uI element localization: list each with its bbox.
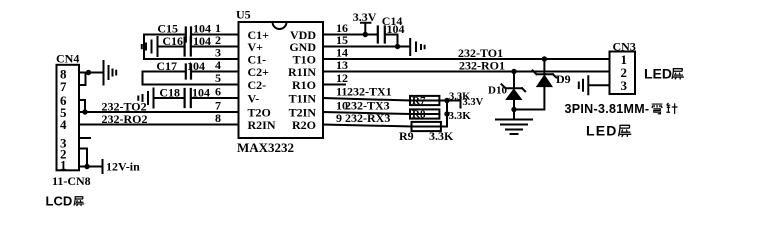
svg-text:C17: C17 (156, 59, 177, 73)
op-amp U5 MAX3232 body (239, 22, 324, 138)
wire net 232-TO2 (79, 111, 239, 113)
svg-text:232-RO2: 232-RO2 (102, 112, 148, 126)
svg-text:U5: U5 (236, 8, 251, 22)
connector CN4 (57, 65, 80, 171)
diode D9 (zener) (543, 59, 545, 74)
resistor R9 (412, 122, 441, 131)
ground (diodes) (496, 120, 532, 135)
svg-text:12V-in: 12V-in (106, 160, 140, 174)
svg-text:R9: R9 (399, 129, 414, 143)
ground CN3 (left-pointing) (579, 76, 589, 94)
svg-text:MAX3232: MAX3232 (237, 140, 294, 155)
connector CN3 (610, 52, 636, 95)
svg-text:R8: R8 (412, 109, 426, 121)
wire C1- row (144, 58, 239, 60)
glyph ping (screen) for LED right (672, 69, 684, 80)
svg-text:CN4: CN4 (56, 52, 79, 66)
wire C18 left to ground (155, 97, 184, 99)
node pin6/pin5 junction (82, 109, 87, 114)
svg-text:6: 6 (215, 85, 221, 99)
svg-text:LED: LED (586, 123, 618, 139)
wire pin2 hook (79, 149, 87, 167)
capacitor C17 (186, 65, 191, 79)
wire net 232-RO2 (79, 124, 239, 126)
ground GND (right-pointing) (410, 39, 424, 55)
svg-text:1: 1 (60, 158, 67, 173)
ground CN4 (right-pointing) (104, 61, 117, 85)
wire R7 to rail (439, 100, 460, 102)
node R7 rail junction (444, 98, 449, 103)
svg-text:R7: R7 (412, 95, 426, 107)
svg-text:3: 3 (621, 78, 628, 93)
svg-text:C2+: C2+ (248, 65, 270, 79)
svg-text:7: 7 (60, 79, 67, 94)
wire VDD row to 3.3V and C14 (323, 34, 377, 36)
wire C16 left to ground (159, 46, 184, 48)
wire C18 right to V- (192, 97, 239, 99)
svg-text:104: 104 (387, 22, 405, 36)
wire pin3 stub (79, 137, 90, 139)
svg-text:R1O: R1O (292, 78, 316, 92)
svg-text:R1IN: R1IN (288, 65, 316, 79)
node D9 junction (542, 56, 547, 61)
ground C18 (left-pointing) (138, 89, 153, 108)
resistor R7 (410, 96, 439, 105)
capacitor C15 (186, 28, 191, 42)
wire C2+ row (192, 71, 239, 73)
glyph ping (screen) for LCD (74, 197, 84, 206)
svg-text:104: 104 (187, 59, 205, 73)
wire GND row (323, 46, 410, 48)
svg-text:232-RO1: 232-RO1 (459, 58, 505, 72)
svg-text:C2-: C2- (248, 78, 267, 92)
power 3.3V bar (R7) (460, 97, 462, 108)
svg-text:R2IN: R2IN (248, 118, 276, 132)
svg-text:4: 4 (60, 117, 67, 132)
svg-text:3.3V: 3.3V (353, 10, 377, 24)
capacitor C14 (378, 27, 385, 43)
node R8 rail junction (444, 111, 449, 116)
svg-text:8: 8 (215, 111, 221, 125)
svg-text:C18: C18 (159, 86, 180, 100)
wire net 232-TO1 (323, 58, 610, 60)
svg-text:13: 13 (336, 58, 348, 72)
svg-text:V-: V- (248, 91, 260, 105)
svg-text:3PIN-3.81MM-: 3PIN-3.81MM- (565, 102, 650, 116)
wire C1+ row (192, 34, 239, 36)
glyph zhen (needle) (666, 103, 677, 114)
power 3.3V tick (361, 23, 370, 35)
wire pin6 hook (79, 100, 85, 112)
ground C16 (left-pointing) (142, 37, 158, 56)
svg-text:232-TX1: 232-TX1 (347, 85, 392, 99)
wire C2- row (143, 84, 239, 86)
node diode ground junction (511, 107, 516, 112)
glyph wan (bend) (652, 104, 663, 114)
wire C15 left to bracket (144, 34, 185, 36)
svg-text:104: 104 (193, 34, 211, 48)
svg-text:3.3V: 3.3V (463, 97, 484, 108)
node VDD 3.3V junction (363, 32, 368, 37)
wire CN3 pin3 to ground (590, 84, 610, 86)
svg-text:R2O: R2O (292, 118, 316, 132)
wire R1O stub (323, 84, 345, 86)
wire pin8 to ground (79, 72, 103, 74)
svg-text:11: 11 (336, 85, 347, 99)
svg-text:11-CN8: 11-CN8 (52, 174, 91, 188)
node pin1 junction (84, 164, 89, 169)
glyph ping (screen) for LED below (619, 125, 632, 137)
wire T2IN row to R8 (323, 112, 410, 114)
svg-text:LED: LED (644, 66, 672, 82)
wire R2O row to R9 (323, 125, 412, 127)
wire bracket C1 (143, 35, 145, 60)
wire T1IN row to R7 (323, 98, 410, 101)
node D10 junction (511, 69, 516, 74)
wire C17 left to bracket (143, 71, 185, 73)
wire bracket C2 (142, 72, 144, 85)
svg-text:12: 12 (336, 71, 348, 85)
svg-text:D9: D9 (556, 72, 571, 86)
diode D10 (zener) (513, 72, 515, 89)
svg-text:5: 5 (215, 71, 221, 85)
capacitor C18 (185, 89, 191, 107)
wire pin1 12V-in (79, 166, 102, 168)
wire rail R7-R9 (441, 101, 447, 127)
wire C14 to GND row (386, 35, 398, 47)
svg-text:LCD: LCD (46, 194, 73, 209)
svg-text:3.3K: 3.3K (449, 110, 472, 122)
svg-text:3.3K: 3.3K (429, 129, 454, 143)
U5 notch (273, 22, 287, 29)
resistor R8 (410, 109, 439, 118)
wire pin7 hook (79, 73, 86, 86)
power 12V-in bar (102, 160, 104, 173)
svg-text:232-RX3: 232-RX3 (345, 111, 390, 125)
node GND junction (395, 44, 400, 49)
svg-text:C16: C16 (162, 34, 183, 48)
svg-text:D10: D10 (488, 85, 507, 97)
svg-text:9: 9 (336, 111, 342, 125)
node pin8 junction (86, 70, 91, 75)
wire C16 right to V+ (192, 46, 239, 48)
svg-text:T1IN: T1IN (289, 91, 317, 105)
svg-text:104: 104 (192, 86, 210, 100)
capacitor C16 (185, 38, 191, 56)
svg-text:4: 4 (215, 58, 221, 72)
wire net 232-RO1 (323, 71, 610, 73)
